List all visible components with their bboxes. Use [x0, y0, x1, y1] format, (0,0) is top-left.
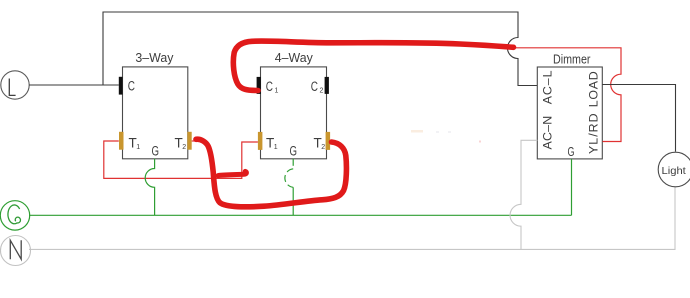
svg-text:4–Way: 4–Way [275, 50, 313, 65]
wire black dimmer LOAD to Light [602, 85, 675, 152]
node N (neutral feed circle) [1, 236, 31, 266]
wire green dimmer G down [571, 159, 573, 215]
pin G of U1 [568, 144, 575, 159]
node N bus (gray) [29, 187, 675, 249]
svg-text:YL/RD: YL/RD [587, 113, 601, 154]
terminal T2 of S2 [314, 132, 331, 151]
marker stroke B: S1.T2 down around to S2.T2 [196, 139, 346, 207]
pin AC-N of U1 [541, 116, 555, 150]
svg-text:1: 1 [275, 88, 279, 95]
wire red traveler S1.T1 to S2.T1 [104, 141, 258, 178]
svg-text:Dimmer: Dimmer [553, 51, 591, 66]
terminal C of S1 [119, 77, 135, 95]
svg-text:1: 1 [274, 144, 278, 151]
svg-text:C: C [266, 79, 273, 94]
dimmer U1 box [537, 51, 602, 159]
svg-text:2: 2 [182, 144, 186, 151]
terminal G of S2 [290, 144, 298, 159]
node L (hot feed) [1, 71, 29, 99]
svg-text:3–Way: 3–Way [135, 50, 173, 65]
wire gray dimmer AC-N down [510, 140, 537, 249]
svg-text:1: 1 [136, 144, 140, 151]
terminal T1 of S2 [258, 132, 278, 151]
terminal T2 of S1 [175, 132, 192, 151]
terminal G of S1 [152, 144, 160, 159]
node G (ground feed circle) [0, 201, 29, 230]
marker stroke A: S2.C1 up and over to dimmer [233, 41, 513, 90]
svg-text:2: 2 [321, 144, 325, 151]
faint smudge artifact [411, 130, 481, 143]
wire red top to dimmer YL/RD [514, 48, 621, 142]
svg-text:Light: Light [662, 166, 686, 177]
switch S1 3-Way box [123, 50, 188, 159]
pin YL/RD of U1 [587, 113, 601, 154]
wire top loop to dimmer AC-L [103, 12, 537, 86]
svg-text:C: C [311, 79, 318, 94]
wire green S1 G down [145, 159, 154, 216]
pin LOAD of U1 [587, 71, 601, 107]
marker stroke C: short cut mark over traveler wire [218, 171, 246, 175]
wire L to 3-way C [29, 84, 119, 86]
svg-text:G: G [568, 144, 575, 159]
terminal C1 of S2 [257, 77, 279, 95]
svg-text:LOAD: LOAD [587, 71, 601, 107]
terminal C2 of S2 [311, 77, 329, 95]
switch S2 4-Way box [261, 50, 327, 159]
pin AC-L of U1 [541, 70, 555, 104]
terminal T1 of S1 [119, 132, 140, 151]
wire red stub at S1.T2 [192, 140, 197, 142]
svg-text:G: G [290, 144, 298, 159]
svg-text:G: G [152, 144, 160, 159]
svg-text:2: 2 [320, 88, 324, 95]
lamp Light [658, 152, 690, 187]
node G bus (green) [29, 214, 572, 216]
wire green S2 G down (dashed) [285, 159, 293, 216]
svg-text:AC–L: AC–L [541, 70, 555, 104]
svg-text:C: C [128, 78, 135, 93]
svg-text:AC–N: AC–N [541, 116, 555, 150]
